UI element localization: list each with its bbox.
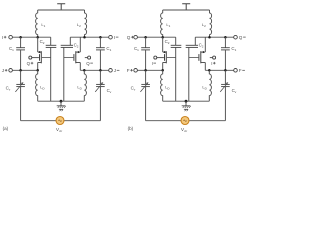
capacitor C1 left bbox=[145, 37, 147, 47]
node dot varactor-left on bottom rail bbox=[19, 69, 22, 72]
wire bottom rail left segment bbox=[13, 69, 38, 71]
wire top horizontal VDD rail bbox=[163, 9, 210, 11]
wire varactor bias right segment bbox=[189, 120, 225, 122]
svg-text:J: J bbox=[2, 68, 4, 73]
svg-text:(b): (b) bbox=[128, 126, 134, 131]
wire body lead of QA to C2 branch bbox=[167, 56, 176, 58]
svg-text:I: I bbox=[2, 35, 3, 40]
VDD supply T-bar symbol bbox=[182, 4, 190, 10]
transistor QA (left MOSFET) bbox=[162, 37, 164, 52]
VDD supply T-bar symbol bbox=[57, 4, 65, 10]
wire lower ground bus bbox=[163, 100, 210, 102]
terminal I- top-right bbox=[109, 35, 113, 39]
capacitor C2 left bbox=[50, 37, 52, 45]
node dot C1-left on top rail bbox=[19, 36, 22, 39]
svg-text:I: I bbox=[152, 61, 153, 66]
terminal Q- top-right bbox=[234, 35, 238, 39]
terminal Q+ gate input left bbox=[32, 57, 39, 59]
inductor L2 bbox=[85, 13, 87, 35]
terminal I+ gate input right bbox=[210, 57, 213, 59]
node dot varactor-right on bottom rail bbox=[224, 69, 227, 72]
inductor LD right bbox=[83, 70, 85, 74]
voltage source Vctr (orange) bbox=[56, 117, 64, 125]
wire bottom rail right segment bbox=[205, 69, 233, 71]
node dot ground tap bbox=[60, 100, 63, 103]
node dot varactor-left on bottom rail bbox=[144, 69, 147, 72]
node dot source-left on bottom rail bbox=[36, 69, 39, 72]
node dot C1-left on top rail bbox=[144, 36, 147, 39]
ground symbol bbox=[60, 101, 62, 106]
node dot varactor-right on bottom rail bbox=[99, 69, 102, 72]
voltage source Vctr (orange) bbox=[181, 117, 189, 125]
inductor LD left bbox=[37, 70, 39, 74]
svg-text:Q: Q bbox=[127, 35, 131, 40]
node dot drain-left on top rail bbox=[36, 36, 39, 39]
wire top rail right segment bbox=[195, 36, 233, 38]
wire bottom rail left segment bbox=[138, 69, 163, 71]
terminal I- gate input left bbox=[157, 57, 164, 59]
svg-text:J: J bbox=[114, 68, 116, 73]
svg-text:I: I bbox=[114, 35, 115, 40]
wire top rail right segment bbox=[70, 36, 108, 38]
varactor Cv right bbox=[224, 70, 226, 84]
inductor L1 bbox=[161, 13, 163, 35]
wire body lead of QA to C2 branch bbox=[42, 56, 51, 58]
node dot C1-right on top rail bbox=[224, 36, 227, 39]
capacitor C1 right bbox=[224, 37, 226, 47]
node dot drain-left on top rail bbox=[161, 36, 164, 39]
node dot ground tap bbox=[185, 100, 188, 103]
wire top rail left segment bbox=[138, 36, 176, 38]
node dot C1-right on top rail bbox=[99, 36, 102, 39]
wire gate lead of QB to C2-right branch bbox=[189, 56, 199, 58]
terminal F- bottom-right bbox=[234, 69, 238, 73]
capacitor C2 right bbox=[69, 37, 71, 45]
svg-text:Q: Q bbox=[27, 61, 31, 66]
capacitor C1 right bbox=[99, 37, 101, 47]
terminal J- bottom-right bbox=[109, 69, 113, 73]
varactor Cv left bbox=[20, 70, 22, 84]
wire top rail left segment bbox=[13, 36, 51, 38]
svg-text:F: F bbox=[239, 68, 242, 73]
inductor LD left bbox=[162, 70, 164, 74]
node dot drain-right on top rail bbox=[83, 36, 86, 39]
transistor QA (left MOSFET) bbox=[37, 37, 39, 52]
capacitor C2 left bbox=[175, 37, 177, 45]
svg-text:Q: Q bbox=[239, 35, 243, 40]
wire top horizontal VDD rail bbox=[38, 9, 85, 11]
svg-text:F: F bbox=[127, 68, 130, 73]
wire bottom rail right segment bbox=[80, 69, 108, 71]
transistor QB (right MOSFET) bbox=[79, 37, 81, 52]
node dot drain-right on top rail bbox=[208, 36, 211, 39]
svg-text:(a): (a) bbox=[3, 126, 9, 131]
node dot source-right on bottom rail bbox=[83, 69, 86, 72]
ground symbol bbox=[185, 101, 187, 106]
node dot source-left on bottom rail bbox=[161, 69, 164, 72]
varactor Cv left bbox=[145, 70, 147, 84]
wire varactor bias left segment bbox=[146, 120, 181, 122]
inductor LD right bbox=[208, 70, 210, 74]
inductor L1 bbox=[36, 13, 38, 35]
wire gate lead of QB to C2-right branch bbox=[64, 56, 74, 58]
wire varactor bias left segment bbox=[21, 120, 56, 122]
capacitor C1 left bbox=[20, 37, 22, 47]
capacitor C2 right bbox=[194, 37, 196, 45]
svg-text:I: I bbox=[211, 61, 212, 66]
wire lower ground bus bbox=[38, 100, 85, 102]
node dot source-right on bottom rail bbox=[208, 69, 211, 72]
inductor L2 bbox=[210, 13, 212, 35]
varactor Cv right bbox=[99, 70, 101, 84]
terminal Q- gate input right bbox=[85, 57, 88, 59]
transistor QB (right MOSFET) bbox=[204, 37, 206, 52]
svg-text:Q: Q bbox=[86, 61, 90, 66]
wire varactor bias right segment bbox=[64, 120, 100, 122]
